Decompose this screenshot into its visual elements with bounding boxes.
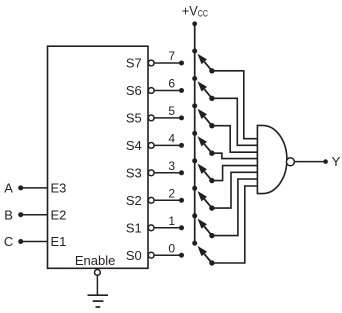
node 1 dot xyxy=(179,225,184,230)
ground xyxy=(88,295,109,307)
decoder U1 (3-to-8 line decoder box) xyxy=(48,46,149,268)
svg-text:E3: E3 xyxy=(51,181,67,196)
Enable active-low bubble xyxy=(95,270,101,276)
node 7 dot xyxy=(179,61,184,66)
switch SW6 wiper arrow xyxy=(198,81,212,98)
switch SW4 wiper arrow xyxy=(198,136,212,153)
wire S7 output xyxy=(154,62,181,64)
node Y dot xyxy=(323,159,328,164)
node 5 dot xyxy=(179,115,184,120)
output S7 bubble xyxy=(148,60,154,66)
node 2 dot xyxy=(179,198,184,203)
svg-text:A: A xyxy=(4,181,13,196)
switch SW7 rail junction dot xyxy=(192,49,197,54)
output S3 bubble xyxy=(148,170,154,176)
svg-text:+V: +V xyxy=(182,3,198,19)
wire +Vcc rail xyxy=(194,24,196,243)
svg-text:E1: E1 xyxy=(51,234,67,249)
wire SW0 to NAND input xyxy=(212,186,258,263)
svg-text:S2: S2 xyxy=(126,193,142,208)
switch SW4 rail junction dot xyxy=(192,131,197,136)
node A terminal dot xyxy=(18,185,23,190)
wire SW2 to NAND input xyxy=(212,172,258,208)
output S1 bubble xyxy=(148,225,154,231)
switch SW5 wiper arrow xyxy=(198,109,212,126)
wire SW7 to NAND input xyxy=(212,71,258,139)
svg-text:7: 7 xyxy=(168,49,175,63)
switch SW6 rail junction dot xyxy=(192,76,197,81)
svg-text:CC: CC xyxy=(198,9,208,19)
NAND gate U2 xyxy=(257,125,287,193)
switch SW5 rail junction dot xyxy=(192,103,197,108)
switch SW0 wiper dot xyxy=(209,260,214,265)
svg-text:Enable: Enable xyxy=(75,253,115,268)
node 0 dot xyxy=(179,253,184,258)
svg-text:S7: S7 xyxy=(126,56,142,71)
svg-text:6: 6 xyxy=(168,77,175,91)
switch SW3 wiper dot xyxy=(209,178,214,183)
svg-text:Y: Y xyxy=(332,154,341,169)
switch SW4 wiper dot xyxy=(209,151,214,156)
wire S1 output xyxy=(154,227,181,229)
svg-text:B: B xyxy=(4,207,13,222)
wire SW5 to NAND input xyxy=(212,126,258,153)
wire A to E input xyxy=(21,187,48,189)
svg-text:C: C xyxy=(4,234,13,249)
svg-text:5: 5 xyxy=(168,104,175,118)
switch SW1 rail junction dot xyxy=(192,213,197,218)
output S2 bubble xyxy=(148,197,154,203)
switch SW5 wiper dot xyxy=(209,123,214,128)
wire Enable to ground xyxy=(96,275,98,295)
switch SW1 wiper arrow xyxy=(198,219,212,236)
node 4 dot xyxy=(179,143,184,148)
svg-text:S0: S0 xyxy=(126,248,142,263)
output S4 bubble xyxy=(148,143,154,149)
wire SW6 to NAND input xyxy=(212,98,258,145)
wire B to E input xyxy=(21,214,48,216)
switch SW3 rail junction dot xyxy=(192,158,197,163)
svg-text:4: 4 xyxy=(168,132,175,146)
wire S0 output xyxy=(154,254,181,256)
switch SW7 wiper dot xyxy=(209,68,214,73)
wire SW3 to NAND input xyxy=(212,166,258,181)
svg-text:S4: S4 xyxy=(126,138,142,153)
svg-text:0: 0 xyxy=(168,241,175,255)
wire S3 output xyxy=(154,172,181,174)
switch SW2 wiper arrow xyxy=(198,191,212,208)
output S0 bubble xyxy=(148,252,154,258)
output S6 bubble xyxy=(148,88,154,94)
svg-text:2: 2 xyxy=(168,187,175,201)
switch SW1 wiper dot xyxy=(209,233,214,238)
switch SW2 wiper dot xyxy=(209,205,214,210)
wire S6 output xyxy=(154,90,181,92)
wire C to E input xyxy=(21,241,48,243)
node 3 dot xyxy=(179,170,184,175)
switch SW6 wiper dot xyxy=(209,96,214,101)
switch SW2 rail junction dot xyxy=(192,186,197,191)
wire SW1 to NAND input xyxy=(212,179,258,236)
switch SW3 wiper arrow xyxy=(198,164,212,181)
svg-text:S1: S1 xyxy=(126,220,142,235)
svg-text:1: 1 xyxy=(168,214,175,228)
node +Vcc terminal dot xyxy=(192,21,197,26)
node C terminal dot xyxy=(18,239,23,244)
svg-text:S3: S3 xyxy=(126,165,142,180)
svg-text:E2: E2 xyxy=(51,207,67,222)
wire S4 output xyxy=(154,144,181,146)
svg-text:S6: S6 xyxy=(126,83,142,98)
switch SW7 wiper arrow xyxy=(198,54,212,71)
switch SW0 rail junction dot xyxy=(192,241,197,246)
wire SW4 to NAND input xyxy=(212,153,258,158)
svg-text:S5: S5 xyxy=(126,111,142,126)
wire NAND output to Y xyxy=(295,161,326,163)
wire S2 output xyxy=(154,199,181,201)
svg-text:3: 3 xyxy=(168,159,175,173)
output S5 bubble xyxy=(148,115,154,121)
node 6 dot xyxy=(179,88,184,93)
node B terminal dot xyxy=(18,212,23,217)
wire S5 output xyxy=(154,117,181,119)
switch SW0 wiper arrow xyxy=(198,246,212,263)
NAND output bubble xyxy=(286,158,294,166)
